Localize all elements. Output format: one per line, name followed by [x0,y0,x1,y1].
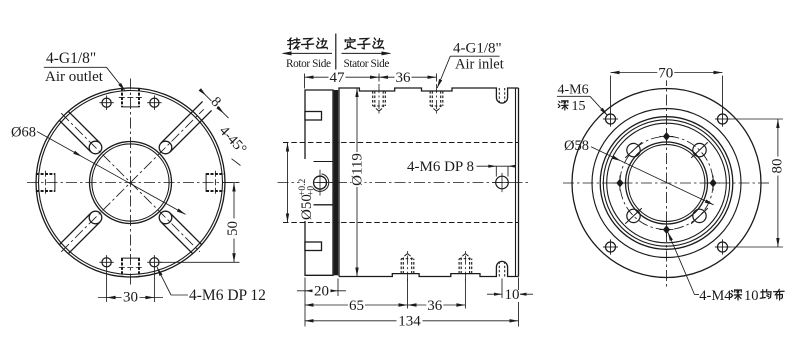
pilot circle (right view) [607,123,727,243]
stator body outline (middle view) [339,88,519,277]
dimension 70 (right view) [610,76,612,113]
rotor flange outline (middle view) [305,90,333,275]
rotor flange keyway notch bottom (middle view) [305,242,322,251]
slot upper-left edge lines (left view) [68,111,100,143]
M6 hole bottom-left (left view) [102,258,111,267]
svg-text:Ø58: Ø58 [564,138,589,154]
rotor side underline and arrow [284,52,333,54]
flange hole bottom-right (right view) [718,242,728,252]
M6 hole top-left (left view) [102,98,111,107]
divider line between rotor/stator labels [335,34,337,70]
svg-text:4-M6: 4-M6 [558,83,589,98]
slot lower-left edge lines (left view) [59,213,91,245]
flange hole top-left (right view) [606,114,616,124]
dimension 65 (middle view) [407,279,409,309]
centerline diagonal NW-SE (left view) [61,113,200,252]
svg-text:Rotor Side: Rotor Side [286,58,331,70]
svg-text:4-G1/8": 4-G1/8" [453,41,502,57]
leader to air inlet port [437,56,450,88]
rotor flange face port circle redraw (middle view) [314,176,327,189]
stator side underline and arrow [342,52,390,54]
svg-text:4-G1/8": 4-G1/8" [46,50,96,67]
svg-text:36: 36 [396,70,412,86]
slot lower-left end circle (left view) [89,211,102,224]
dimension 47 and 36 top (middle view) [304,74,306,89]
M6 radial hole bottom thread dashes (middle view) [498,260,500,277]
centerline vertical (left view) [130,79,132,288]
G1/8 air port bottom-2 (middle view) [458,259,460,274]
centerline vertical (right view) [666,75,668,289]
G1/8 rim port square bottom (left view) [121,258,123,277]
label stator side CN (middle view) [345,38,356,49]
slot upper-right end circle (left view) [159,141,172,154]
svg-text:30: 30 [123,290,138,306]
G1/8 air port bottom-1 (middle view) [400,259,402,274]
svg-text:80: 80 [769,159,785,174]
dimension 80 (right view) [729,118,784,120]
hidden bore line upper (middle view) [283,142,519,144]
label rotor side CN (middle view) [288,38,300,49]
G1/8 air port top-1 (middle view) [372,91,374,106]
dimension 134 (middle view) [305,320,519,322]
boss double circle inner (right view) [603,120,729,246]
dimension 10 (middle view) [501,279,503,299]
outer flange inner circle (left view) [39,91,223,275]
centerline horizontal (right view) [563,182,770,184]
M6 radial hole top thread dashes (middle view) [498,88,500,105]
M6 front hole circle (middle view) [496,176,509,189]
svg-text:10: 10 [505,287,520,303]
svg-text:20: 20 [314,284,329,300]
svg-text:Ø50: Ø50 [299,194,315,220]
slot upper-left end circle (left view) [89,141,102,154]
boss double circle outer (right view) [600,117,733,250]
svg-text:50: 50 [225,221,241,236]
slot lower-right edge lines (left view) [161,222,193,254]
svg-text:Air outlet: Air outlet [45,69,104,85]
svg-text:36: 36 [427,298,443,314]
dimension 50 (left view) [223,182,240,184]
M6 hole bottom-right (left view) [150,258,159,267]
rotor flange hub lines (middle view) [305,161,333,163]
svg-text:Stator Side: Stator Side [344,58,390,70]
dimension dia 50 with tolerance (middle view) [287,143,289,223]
svg-text:10: 10 [744,288,759,304]
svg-text:65: 65 [349,298,364,314]
dimension 36 bottom (middle view) [464,279,466,309]
svg-text:15: 15 [572,99,586,114]
dimension 30 (left view) [106,270,108,303]
svg-text:4-M6 DP 12: 4-M6 DP 12 [189,287,266,304]
svg-text:70: 70 [658,65,673,81]
svg-text:Air inlet: Air inlet [455,57,504,73]
center bore circle inner (left view) [92,144,169,221]
centerline horizontal (left view) [27,182,239,184]
hidden bore line lower (middle view) [283,222,519,224]
G1/8 rim port square left (left view) [36,173,55,175]
M6 hole top-right (left view) [150,98,159,107]
G1/8 rim port square top (left view) [121,88,123,107]
svg-text:Ø68: Ø68 [11,125,36,141]
bore circle inner (right view) [628,145,705,222]
outer flange circle (left view) [36,88,225,277]
label 4-45 deg (left view) [215,122,250,159]
bolt circle dia 58 dash-dot (right view) [620,136,713,229]
dimension 20 (middle view) [304,278,306,327]
svg-text:47: 47 [330,70,346,86]
rotor flange keyway notch top (middle view) [305,112,322,121]
flange hole top-right (right view) [718,114,728,124]
centerline diagonal NE-SW (left view) [61,109,204,252]
slot upper-right edge lines (left view) [170,110,212,152]
stator right face double line (middle view) [515,88,517,277]
dimension dia 119 (middle view) [356,88,358,277]
dimension 8 slot width (left view) [203,93,229,119]
center bore circle outer (left view) [90,142,172,224]
svg-text:4-M6 DP 8: 4-M6 DP 8 [407,159,474,175]
leader to top port (left view) [107,67,126,91]
locating pins / plugs on bolt circle (right view) [616,179,623,188]
svg-text:134: 134 [398,314,421,330]
rotor flange face port circle (middle view) [314,176,327,189]
G1/8 air port top-2 (middle view) [429,91,431,106]
G1/8 rim port square right (left view) [206,173,225,175]
outer flange circle (right view) [572,89,761,278]
svg-text:Ø119: Ø119 [350,153,366,186]
svg-text:4-M4: 4-M4 [699,288,732,304]
flange hole bottom-left (right view) [606,242,616,252]
slot lower-right end circle (left view) [159,211,172,224]
flange step circle (right view) [592,109,741,258]
bore circle outer (right view) [626,142,708,224]
M4 tapped holes on bolt circle (right view) [627,143,640,156]
centerline horizontal (middle view) [278,182,532,184]
rotor plate heavy bar (middle view) [334,90,339,275]
